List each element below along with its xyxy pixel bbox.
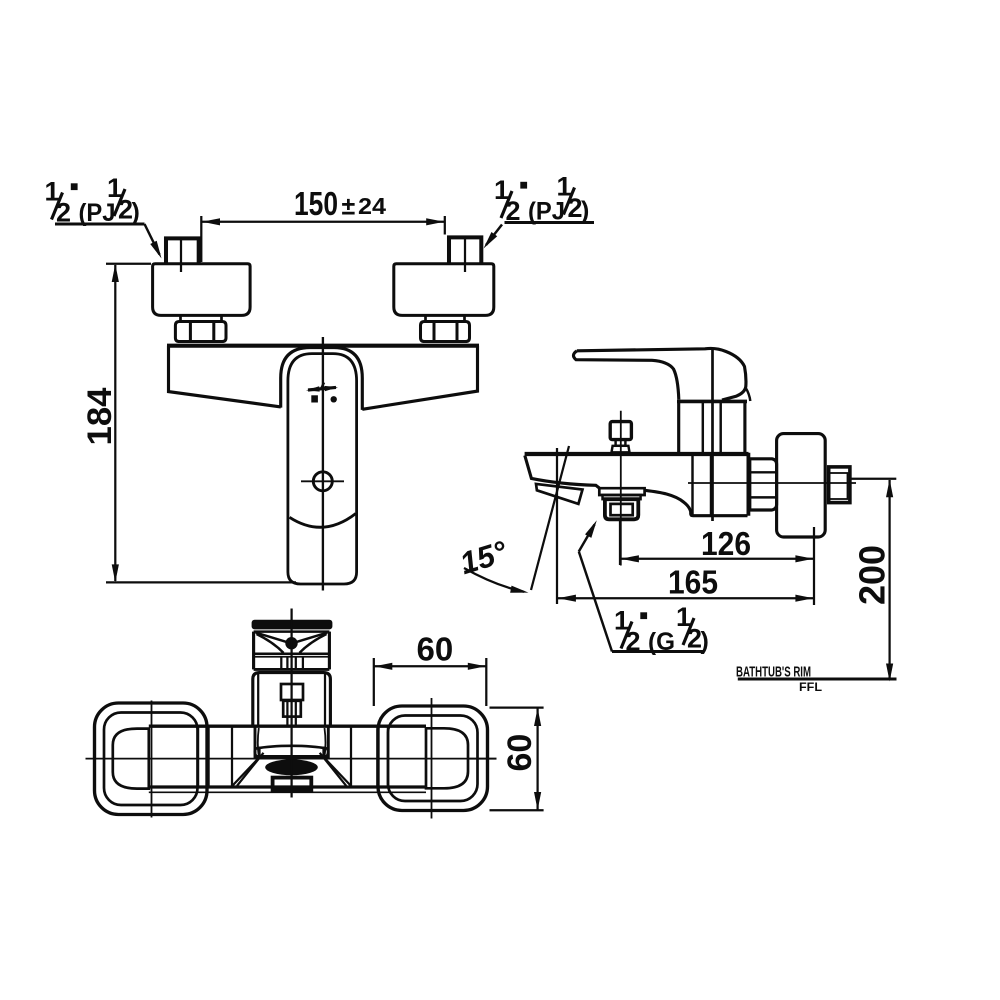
svg-text:±: ±	[342, 193, 356, 221]
svg-text:126: 126	[701, 525, 751, 562]
svg-text:): )	[132, 198, 140, 226]
svg-text:165: 165	[668, 564, 718, 601]
svg-text:150: 150	[294, 185, 338, 222]
svg-text:184: 184	[81, 387, 119, 445]
svg-text:200: 200	[852, 545, 893, 605]
svg-text:60: 60	[501, 734, 539, 772]
svg-text:60: 60	[417, 631, 454, 668]
svg-text:): )	[581, 197, 589, 225]
svg-text:FFL: FFL	[799, 682, 822, 694]
svg-text:24: 24	[358, 193, 386, 219]
